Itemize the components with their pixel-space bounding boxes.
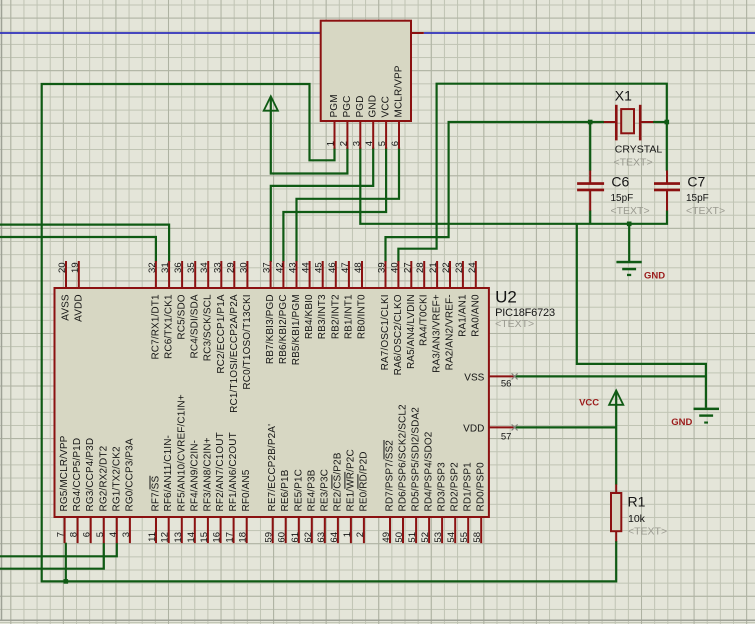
- wire crystal right lead to right junction: [653, 121, 667, 123]
- svg-text:RB6/KBI2/PGC: RB6/KBI2/PGC: [278, 294, 289, 364]
- svg-text:1: 1: [342, 532, 353, 537]
- svg-text:49: 49: [381, 532, 392, 543]
- wire net PGM: connector pin1 to R1 bottom via left side: [42, 84, 617, 581]
- svg-text:RC6/TX1/CK1: RC6/TX1/CK1: [164, 294, 175, 359]
- svg-text:RD3/PSP3: RD3/PSP3: [437, 462, 448, 512]
- svg-text:RC7/RX1/DT1: RC7/RX1/DT1: [150, 294, 161, 360]
- svg-text:VCC: VCC: [579, 397, 599, 408]
- svg-text:RE7/ECCP2B/P2A': RE7/ECCP2B/P2A': [267, 424, 278, 512]
- svg-text:15: 15: [199, 532, 210, 543]
- svg-text:21: 21: [428, 262, 439, 273]
- svg-text:RF1/AN6/C2OUT: RF1/AN6/C2OUT: [228, 432, 239, 511]
- svg-text:29: 29: [225, 262, 236, 273]
- svg-text:22: 22: [441, 262, 452, 273]
- svg-text:3: 3: [351, 141, 362, 146]
- bus / off-page wire (blue), right of connector: [424, 32, 755, 34]
- svg-text:19: 19: [70, 262, 81, 273]
- svg-text:58: 58: [472, 532, 483, 543]
- svg-text:RB5/KBI1/PGM: RB5/KBI1/PGM: [291, 294, 302, 365]
- svg-text:16: 16: [212, 532, 223, 543]
- svg-text:RF2/AN7/C1OUT: RF2/AN7/C1OUT: [215, 432, 226, 511]
- svg-text:RD2/PSP2: RD2/PSP2: [450, 462, 461, 512]
- U2 VSS pin 56 stub: [489, 375, 515, 377]
- svg-text:51: 51: [407, 532, 418, 543]
- svg-text:10k: 10k: [628, 513, 646, 525]
- wire C6 branch down to ground rail: [589, 122, 591, 224]
- svg-text:RE1/WR/P2C: RE1/WR/P2C: [345, 449, 356, 511]
- wire net PGC: connector pin2 to VCC power arrow: [271, 98, 348, 174]
- svg-text:<TEXT>: <TEXT>: [628, 526, 667, 538]
- ground symbol below C6/C7: [616, 261, 641, 264]
- svg-text:MCLR/VPP: MCLR/VPP: [394, 65, 405, 117]
- wire net OSC2: U2 pin 40 over the top to crystal right / C7 top: [398, 84, 666, 262]
- sheet border left edge: [1, 0, 3, 620]
- crystal X1 right plate bar: [639, 105, 642, 141]
- svg-text:14: 14: [186, 532, 197, 543]
- wire net: connector pin4 to U2 pin 37: [271, 148, 373, 263]
- capacitor C7 plates: [654, 182, 680, 185]
- svg-text:RB7/KBI3/PGD: RB7/KBI3/PGD: [265, 294, 276, 364]
- svg-text:48: 48: [353, 262, 364, 273]
- wire off-page left to U2 pin 4 (TX2): [0, 543, 117, 557]
- svg-text:44: 44: [301, 262, 312, 273]
- svg-text:RC1/T1OSI/ECCP2A/P2A: RC1/T1OSI/ECCP2A/P2A: [229, 294, 240, 413]
- svg-text:5: 5: [377, 141, 388, 146]
- capacitor C6 leads: [589, 171, 591, 211]
- svg-text:CRYSTAL: CRYSTAL: [615, 144, 663, 156]
- svg-text:45: 45: [314, 262, 325, 273]
- svg-text:RA6/OSC2/CLKO: RA6/OSC2/CLKO: [393, 294, 404, 375]
- connector J1 body: [321, 21, 411, 121]
- power terminal VCC arrow (near VDD): [609, 390, 623, 404]
- junction dot crystal left / C6: [588, 120, 593, 125]
- junction dot ground rail to GND symbol: [627, 222, 632, 227]
- U2 VDD pin 57 stub: [489, 426, 515, 428]
- svg-text:RC0/T1OSO/T13CKI: RC0/T1OSO/T13CKI: [242, 294, 253, 389]
- crystal X1 left plate bar: [615, 105, 618, 141]
- svg-text:17: 17: [225, 532, 236, 543]
- U2 top pin stubs: [66, 261, 476, 289]
- wire net OSC1: U2 pin 39 to crystal left / C6 top: [386, 122, 605, 262]
- resistor R1 body: [611, 493, 621, 531]
- svg-text:11: 11: [147, 532, 158, 542]
- resistor R1 leads: [615, 484, 617, 541]
- svg-text:15pF: 15pF: [686, 193, 709, 204]
- junction dot U2 pin7 on bottom rail: [64, 579, 69, 584]
- power terminal VCC arrow (top, near connector): [264, 96, 278, 110]
- svg-text:<TEXT>: <TEXT>: [611, 205, 650, 217]
- svg-text:RB1/INT1: RB1/INT1: [343, 294, 354, 339]
- svg-text:46: 46: [327, 262, 338, 273]
- svg-text:18: 18: [238, 532, 249, 543]
- svg-text:RA7/OSC1/CLKI: RA7/OSC1/CLKI: [380, 294, 391, 370]
- wire ground rail down-right to GND symbol near VSS: [577, 224, 706, 408]
- svg-text:GND: GND: [644, 270, 665, 281]
- svg-text:36: 36: [173, 262, 184, 273]
- connector J1 right pin stub: [411, 32, 424, 34]
- svg-text:59: 59: [264, 532, 275, 543]
- svg-text:RG1/TX2/CK2: RG1/TX2/CK2: [111, 446, 122, 512]
- svg-text:RF4/AN9/C2IN-: RF4/AN9/C2IN-: [189, 440, 200, 512]
- svg-text:PGC: PGC: [342, 95, 353, 117]
- svg-text:RG3/CCP4/P3D: RG3/CCP4/P3D: [85, 438, 96, 512]
- svg-text:54: 54: [446, 532, 457, 543]
- svg-text:64: 64: [329, 532, 340, 543]
- wire GND stem below C6/C7 junction: [628, 224, 630, 261]
- wire off-page left to U2 pin 32: [0, 237, 156, 262]
- svg-text:52: 52: [420, 532, 431, 543]
- svg-text:6: 6: [390, 141, 401, 146]
- svg-text:RC3/SCK/SCL: RC3/SCK/SCL: [203, 294, 214, 361]
- svg-text:RF7/SS: RF7/SS: [151, 476, 162, 512]
- svg-text:RG0/CCP3/P3A: RG0/CCP3/P3A: [124, 438, 135, 511]
- svg-text:VCC: VCC: [381, 96, 392, 117]
- svg-text:3: 3: [121, 532, 132, 537]
- capacitor C7 leads: [666, 171, 668, 211]
- wire net: connector pin5 to U2 pin 42: [283, 148, 386, 263]
- svg-text:RF6/AN11/C1IN-: RF6/AN11/C1IN-: [163, 435, 174, 512]
- svg-text:61: 61: [290, 532, 301, 543]
- svg-text:23: 23: [454, 262, 465, 273]
- svg-text:RA0/AN0: RA0/AN0: [470, 294, 481, 337]
- svg-text:<TEXT>: <TEXT>: [686, 205, 725, 217]
- svg-text:VSS: VSS: [464, 372, 484, 383]
- svg-text:RF3/AN8/C2IN+: RF3/AN8/C2IN+: [202, 437, 213, 511]
- svg-text:RE2/CS/P2B: RE2/CS/P2B: [332, 452, 343, 511]
- svg-text:7: 7: [56, 532, 67, 537]
- sheet border bottom edge: [0, 619, 755, 621]
- svg-text:RC2/ECCP1/P1A: RC2/ECCP1/P1A: [216, 294, 227, 374]
- crystal X1 body rectangle: [621, 109, 634, 133]
- svg-text:RA4/T0CKI: RA4/T0CKI: [419, 294, 430, 346]
- wire U2 pin 7 down to bottom rail: [65, 543, 67, 582]
- svg-text:31: 31: [160, 262, 171, 273]
- svg-text:RA3/AN3/VREF+: RA3/AN3/VREF+: [432, 294, 443, 373]
- connector J1 bottom pin stubs 1-6: [335, 121, 400, 149]
- svg-text:RG5/MCLR/VPP: RG5/MCLR/VPP: [59, 435, 70, 511]
- svg-text:RD0/PSP0: RD0/PSP0: [476, 462, 487, 512]
- svg-text:42: 42: [274, 262, 285, 273]
- svg-text:RD5/PSP5/SDI2/SDA2: RD5/PSP5/SDI2/SDA2: [411, 407, 422, 512]
- svg-text:13: 13: [173, 532, 184, 543]
- svg-text:37: 37: [262, 262, 273, 273]
- svg-text:50: 50: [394, 532, 405, 543]
- svg-text:8: 8: [69, 532, 80, 537]
- svg-text:43: 43: [288, 262, 299, 273]
- wire net: connector pin6 to U2 pin 43: [297, 148, 400, 263]
- svg-text:R1: R1: [628, 493, 646, 509]
- svg-text:RA1/AN1: RA1/AN1: [457, 294, 468, 337]
- svg-text:C7: C7: [687, 173, 705, 189]
- svg-text:33: 33: [212, 262, 223, 273]
- svg-text:RE5/P1C: RE5/P1C: [293, 469, 304, 512]
- svg-text:U2: U2: [495, 287, 517, 306]
- svg-text:12: 12: [160, 532, 171, 543]
- svg-text:RE6/P1B: RE6/P1B: [280, 469, 291, 511]
- svg-text:C6: C6: [611, 173, 629, 189]
- svg-text:RD4/PSP4/SDO2: RD4/PSP4/SDO2: [424, 431, 435, 511]
- svg-text:32: 32: [147, 262, 158, 273]
- svg-text:30: 30: [238, 262, 249, 273]
- svg-text:RC5/SDO: RC5/SDO: [177, 294, 188, 339]
- capacitor C6 plates: [577, 182, 604, 185]
- wire VCC arrow stem down to R1 top: [615, 392, 617, 485]
- svg-text:4: 4: [108, 532, 119, 537]
- pin-end x marker VDD: [512, 424, 518, 430]
- svg-text:RD1/PSP1: RD1/PSP1: [463, 462, 474, 512]
- wire off-page left to U2 pin 5 (RX2): [0, 543, 104, 569]
- junction dot crystal right / C7: [665, 120, 670, 125]
- svg-text:AVDD: AVDD: [73, 294, 84, 322]
- svg-text:27: 27: [402, 262, 413, 273]
- svg-text:62: 62: [303, 532, 314, 543]
- wire off-page left to U2 pin 31: [0, 225, 169, 262]
- wire net ground rail: connector pin3 down, right to C6/C7 bottoms: [360, 148, 667, 224]
- svg-text:28: 28: [415, 262, 426, 273]
- svg-text:35: 35: [186, 262, 197, 273]
- ground symbol near VSS: [694, 408, 720, 411]
- svg-text:RB0/INT0: RB0/INT0: [357, 294, 368, 339]
- svg-text:PGD: PGD: [355, 95, 366, 117]
- svg-text:RE4/P3B: RE4/P3B: [306, 469, 317, 511]
- svg-text:RB3/INT3: RB3/INT3: [317, 294, 328, 339]
- svg-text:2: 2: [338, 141, 349, 146]
- svg-text:RD7/PSP7/SS2: RD7/PSP7/SS2: [385, 440, 396, 512]
- svg-text:RG2/RX2/DT2: RG2/RX2/DT2: [98, 445, 109, 511]
- svg-text:RC4/SDI/SDA: RC4/SDI/SDA: [190, 294, 201, 358]
- svg-text:<TEXT>: <TEXT>: [614, 156, 653, 168]
- svg-text:6: 6: [82, 532, 93, 537]
- svg-text:RB2/INT2: RB2/INT2: [330, 294, 341, 339]
- svg-text:RF0/AN5: RF0/AN5: [241, 469, 252, 511]
- svg-text:RA2/AN2/VREF-: RA2/AN2/VREF-: [445, 294, 456, 370]
- svg-text:2: 2: [355, 532, 366, 537]
- svg-text:15pF: 15pF: [611, 193, 634, 204]
- svg-text:55: 55: [459, 532, 470, 543]
- svg-text:GND: GND: [368, 95, 379, 118]
- svg-text:20: 20: [57, 262, 68, 273]
- svg-text:63: 63: [316, 532, 327, 543]
- svg-text:VDD: VDD: [463, 423, 484, 434]
- wire VSS pin to GND drop: [514, 375, 706, 377]
- svg-text:RB4/KBI0: RB4/KBI0: [304, 294, 315, 339]
- svg-text:X1: X1: [615, 87, 632, 103]
- svg-text:34: 34: [199, 262, 210, 273]
- svg-text:RF5/AN10/CVREF/C1IN+: RF5/AN10/CVREF/C1IN+: [176, 394, 187, 511]
- svg-text:PGM: PGM: [329, 94, 340, 117]
- svg-text:RE3/P3C: RE3/P3C: [319, 469, 330, 512]
- bus / off-page wire (blue), left of connector: [0, 32, 321, 34]
- U2 bottom pin stubs: [65, 517, 482, 543]
- svg-text:RA5/AN4/LVDIN: RA5/AN4/LVDIN: [406, 294, 417, 369]
- svg-text:RG4/CCP5/P1D: RG4/CCP5/P1D: [72, 438, 83, 512]
- op-amp U2 body (PIC18F6723 microcontroller): [55, 288, 489, 517]
- svg-text:40: 40: [389, 262, 400, 273]
- svg-text:RE0/RD/P2D: RE0/RD/P2D: [358, 451, 369, 511]
- svg-text:GND: GND: [671, 417, 692, 428]
- svg-text:5: 5: [95, 532, 106, 537]
- svg-text:24: 24: [467, 262, 478, 273]
- pin-end x marker VSS: [512, 373, 518, 379]
- svg-text:47: 47: [340, 262, 351, 273]
- svg-text:1: 1: [326, 141, 337, 146]
- svg-text:53: 53: [433, 532, 444, 543]
- svg-text:4: 4: [364, 141, 375, 146]
- svg-text:<TEXT>: <TEXT>: [495, 318, 534, 330]
- crystal X1 leads: [604, 121, 653, 123]
- svg-text:57: 57: [501, 431, 512, 442]
- svg-text:60: 60: [277, 532, 288, 543]
- svg-text:AVSS: AVSS: [61, 294, 72, 321]
- wire VDD pin to VCC stem: [514, 426, 616, 428]
- svg-text:56: 56: [501, 379, 512, 390]
- svg-text:39: 39: [377, 262, 388, 273]
- svg-text:RD6/PSP6/SCK2/SCL2: RD6/PSP6/SCK2/SCL2: [398, 404, 409, 512]
